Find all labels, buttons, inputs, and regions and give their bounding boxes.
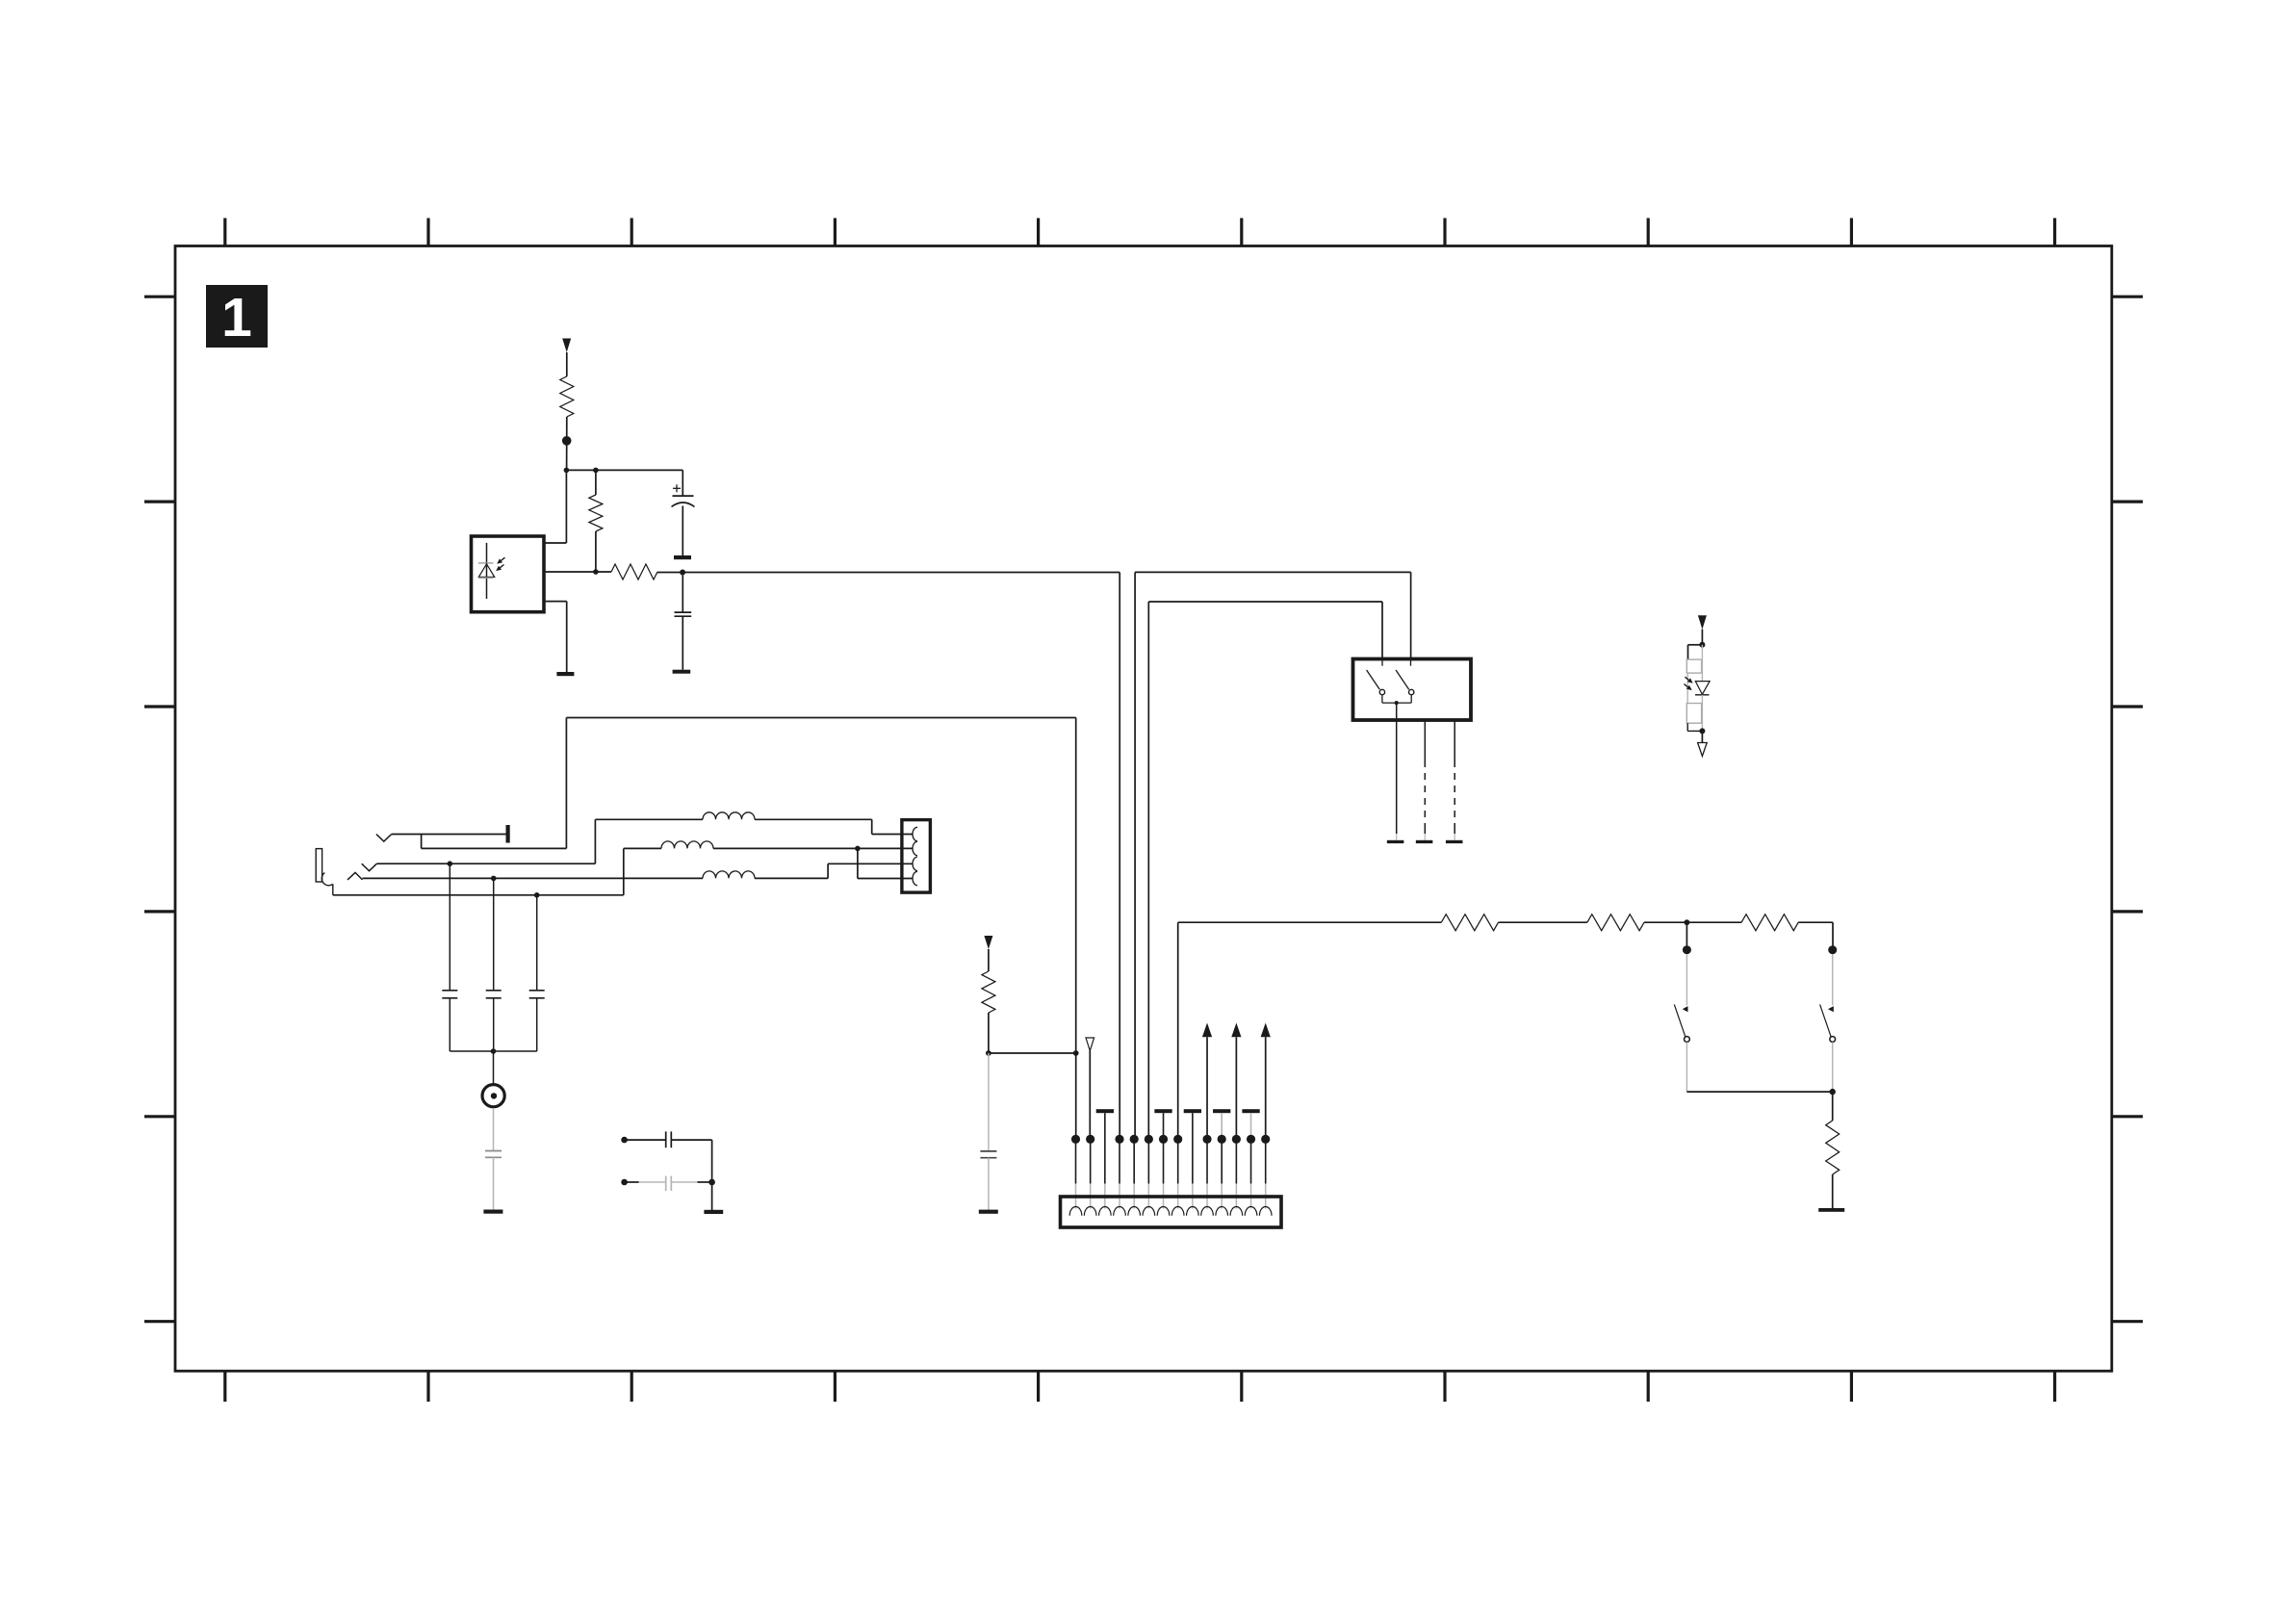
svg-text:1: 1: [221, 287, 252, 348]
